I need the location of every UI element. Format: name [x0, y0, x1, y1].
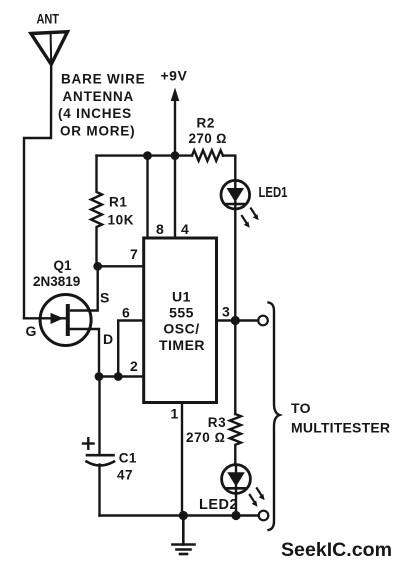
svg-text:6: 6 [122, 305, 130, 321]
label C1 47 [117, 451, 137, 483]
junction dot rail/pin4 [171, 151, 180, 160]
terminal lower (to multitester) [259, 511, 269, 521]
svg-text:1: 1 [171, 406, 179, 422]
svg-text:D: D [103, 331, 113, 347]
svg-text:2N3819: 2N3819 [33, 274, 80, 289]
svg-text:TIMER: TIMER [159, 337, 205, 353]
svg-text:LED1: LED1 [259, 185, 288, 201]
svg-text:Q1: Q1 [54, 258, 73, 273]
wire pin 6 [118, 321, 144, 377]
label R2 270ohm [189, 116, 227, 146]
junction dot pin3 [231, 316, 240, 325]
wire source to pin7 node [71, 266, 98, 310]
wire R2 right lead to LED1 [223, 156, 235, 181]
svg-text:3: 3 [222, 304, 230, 320]
svg-text:(4 INCHES: (4 INCHES [58, 106, 132, 121]
svg-text:270 Ω: 270 Ω [186, 430, 226, 445]
svg-text:S: S [100, 290, 109, 306]
svg-text:BARE WIRE: BARE WIRE [61, 72, 145, 87]
svg-text:+9V: +9V [161, 68, 188, 84]
junction dot ground [179, 511, 188, 520]
label U1 555 OSC/TIMER [159, 289, 205, 353]
LED1 [221, 180, 250, 209]
junction dot rail/pin8 [143, 151, 152, 160]
svg-text:LED2: LED2 [199, 497, 238, 513]
terminal upper (to multitester) [258, 316, 268, 326]
antenna ANT [31, 32, 68, 65]
svg-text:10K: 10K [108, 213, 135, 228]
wire top rail [97, 154, 193, 156]
ground [173, 516, 195, 555]
junction dot drain/pin2 [95, 372, 104, 381]
svg-text:R1: R1 [109, 195, 127, 210]
svg-text:R3: R3 [208, 415, 226, 430]
label TO MULTITESTER [291, 400, 390, 436]
svg-text:U1: U1 [172, 289, 191, 305]
label BARE WIRE ANTENNA (4 INCHES OR MORE) [58, 72, 145, 139]
wire pin 7 [98, 265, 144, 267]
svg-text:OSC/: OSC/ [163, 321, 199, 337]
wire antenna mast to gate corner [24, 64, 51, 318]
svg-text:TO: TO [291, 400, 311, 416]
svg-text:ANTENNA: ANTENNA [63, 89, 135, 104]
svg-text:270 Ω: 270 Ω [189, 131, 227, 146]
op-amp/IC U1 555 box [144, 238, 217, 403]
wire pin 2 [99, 375, 144, 377]
svg-text:7: 7 [130, 246, 138, 262]
svg-text:OR MORE): OR MORE) [60, 124, 135, 139]
wire node to C1 [98, 377, 100, 455]
resistor R1 [91, 156, 102, 267]
svg-text:8: 8 [156, 221, 164, 237]
wire bottom rail [100, 514, 259, 516]
svg-text:47: 47 [117, 468, 133, 483]
label R1 10K [108, 195, 135, 228]
LED1 emission arrows [242, 209, 259, 228]
svg-text:555: 555 [169, 305, 194, 321]
svg-text:R2: R2 [197, 116, 215, 131]
label R3 270ohm [186, 415, 226, 445]
wire pin 4 [174, 156, 176, 238]
resistor R3 [230, 414, 241, 465]
wire pin 1 [181, 403, 183, 516]
wire LED2 to bottom rail [235, 493, 237, 515]
junction dot LED2/rail [231, 511, 240, 520]
LED2 [222, 465, 251, 494]
wire pin 8 [146, 156, 148, 238]
svg-text:2: 2 [130, 358, 138, 374]
svg-text:SeekIC.com: SeekIC.com [281, 539, 392, 561]
transistor Q1 2N3819 [24, 295, 91, 346]
brace to multitester [269, 303, 280, 531]
svg-text:ANT: ANT [37, 11, 60, 27]
svg-text:4: 4 [181, 221, 189, 237]
junction dot pin7/R1/source [93, 262, 102, 271]
svg-text:C1: C1 [119, 451, 137, 466]
+9V supply arrow [171, 88, 180, 156]
wire pin 3 [217, 319, 259, 321]
resistor R2 [192, 150, 223, 161]
svg-text:G: G [26, 323, 37, 339]
svg-text:MULTITESTER: MULTITESTER [291, 420, 390, 436]
LED2 emission arrows [250, 488, 265, 506]
junction dot pin6/pin2 [114, 372, 123, 381]
capacitor C1 [83, 438, 114, 515]
wire drain down to pin2 node [70, 329, 99, 377]
wire LED1 to pin3 node to R3 [234, 209, 236, 414]
